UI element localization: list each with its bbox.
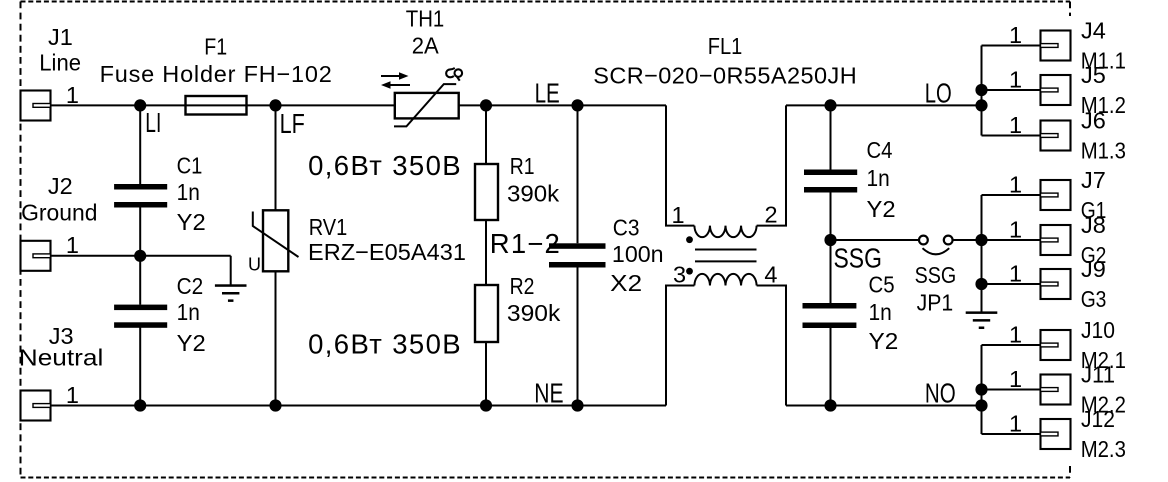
svg-text:Y2: Y2 — [867, 196, 896, 222]
svg-text:J5: J5 — [1081, 62, 1106, 88]
svg-text:LF: LF — [280, 108, 305, 139]
svg-text:1: 1 — [66, 232, 79, 258]
svg-text:C1: C1 — [177, 152, 203, 178]
svg-text:J4: J4 — [1081, 18, 1106, 44]
svg-text:NE: NE — [534, 377, 563, 408]
svg-text:1: 1 — [66, 82, 79, 108]
svg-text:JP1: JP1 — [917, 290, 954, 316]
svg-text:4: 4 — [764, 261, 777, 287]
svg-text:100n: 100n — [612, 241, 664, 267]
svg-text:SSG: SSG — [915, 262, 957, 288]
svg-text:1: 1 — [1009, 321, 1022, 347]
svg-text:Line: Line — [39, 49, 81, 75]
svg-text:Ground: Ground — [21, 200, 97, 226]
svg-text:1n: 1n — [177, 179, 200, 205]
svg-text:NO: NO — [925, 378, 956, 409]
svg-text:J2: J2 — [48, 173, 73, 199]
svg-text:1: 1 — [1009, 260, 1022, 286]
svg-text:1: 1 — [1009, 66, 1022, 92]
svg-text:TH1: TH1 — [406, 5, 445, 31]
svg-text:J9: J9 — [1081, 256, 1106, 282]
svg-text:1: 1 — [1009, 112, 1022, 138]
svg-text:ERZ−E05A431: ERZ−E05A431 — [308, 239, 466, 265]
svg-text:M2.3: M2.3 — [1081, 436, 1126, 462]
svg-text:R2: R2 — [510, 273, 535, 299]
svg-text:J7: J7 — [1081, 167, 1106, 193]
svg-text:1: 1 — [66, 382, 79, 408]
svg-text:1: 1 — [1009, 410, 1022, 436]
svg-text:0,6Вт 350В: 0,6Вт 350В — [308, 328, 461, 359]
svg-text:J6: J6 — [1081, 108, 1106, 134]
svg-text:U: U — [248, 255, 261, 275]
svg-text:1n: 1n — [177, 299, 200, 325]
svg-text:Fuse Holder FH−102: Fuse Holder FH−102 — [100, 61, 332, 87]
svg-text:J8: J8 — [1081, 212, 1106, 238]
svg-text:C4: C4 — [867, 137, 893, 163]
svg-text:M1.3: M1.3 — [1081, 138, 1126, 164]
svg-text:SSG: SSG — [834, 243, 882, 274]
svg-text:2A: 2A — [412, 33, 439, 59]
svg-text:G3: G3 — [1081, 286, 1107, 312]
svg-text:1: 1 — [1009, 22, 1022, 48]
svg-text:1n: 1n — [867, 165, 890, 191]
svg-text:1: 1 — [1009, 366, 1022, 392]
svg-text:Y2: Y2 — [177, 330, 206, 356]
svg-text:3: 3 — [673, 261, 686, 287]
svg-text:C5: C5 — [869, 272, 895, 298]
svg-text:C2: C2 — [177, 273, 204, 299]
svg-text:1: 1 — [1009, 171, 1022, 197]
svg-text:1: 1 — [671, 202, 684, 228]
svg-text:FL1: FL1 — [708, 33, 743, 59]
svg-text:Y2: Y2 — [177, 209, 206, 235]
svg-text:LE: LE — [535, 77, 560, 108]
svg-text:F1: F1 — [204, 34, 227, 60]
svg-text:J11: J11 — [1081, 362, 1115, 388]
svg-text:1n: 1n — [869, 299, 892, 325]
svg-text:LI: LI — [145, 107, 161, 138]
svg-text:R1: R1 — [510, 153, 535, 179]
svg-text:Y2: Y2 — [869, 328, 899, 354]
svg-text:1: 1 — [1009, 216, 1022, 242]
svg-text:0,6Вт 350В: 0,6Вт 350В — [308, 150, 461, 181]
svg-text:J1: J1 — [48, 24, 73, 50]
svg-text:SCR−020−0R55A250JH: SCR−020−0R55A250JH — [593, 63, 857, 89]
svg-text:390k: 390k — [507, 180, 559, 206]
svg-text:X2: X2 — [610, 270, 642, 296]
svg-text:RV1: RV1 — [309, 214, 348, 240]
svg-text:2: 2 — [764, 202, 777, 228]
svg-text:LO: LO — [925, 77, 952, 108]
svg-text:C3: C3 — [613, 214, 640, 240]
svg-text:J10: J10 — [1081, 317, 1115, 343]
svg-text:J12: J12 — [1081, 406, 1115, 432]
svg-text:Neutral: Neutral — [19, 345, 104, 371]
svg-text:390k: 390k — [507, 300, 561, 326]
svg-text:R1−2: R1−2 — [490, 228, 560, 259]
